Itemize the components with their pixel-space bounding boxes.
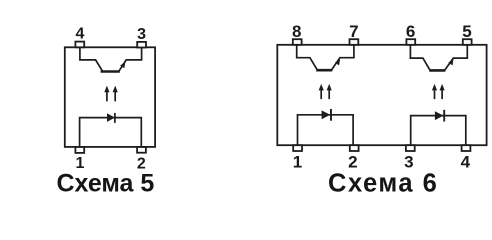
phototransistor VT2 base bar (U2a) <box>316 69 332 72</box>
light arrow 1 (U2a) <box>319 84 324 99</box>
svg-text:4: 4 <box>75 26 84 43</box>
svg-text:5: 5 <box>462 22 471 41</box>
wire: pin 6 to phototransistor collector (U2b) <box>410 45 430 70</box>
pin 6 stub (U2 top) <box>406 39 415 45</box>
wire: pin 8 to phototransistor collector (U2a) <box>297 45 318 70</box>
LED VD1 triangle anode (U1) <box>107 113 115 122</box>
svg-text:4: 4 <box>461 153 471 172</box>
pin 1 stub (U1 bottom-left) <box>75 147 84 153</box>
svg-text:7: 7 <box>349 22 358 41</box>
LED VD2 cathode bar (U2a) <box>330 109 332 121</box>
svg-text:3: 3 <box>137 26 146 43</box>
pin 4 stub (U2 bottom) <box>462 145 471 151</box>
pin 1 stub (U2 bottom) <box>293 145 302 151</box>
optocoupler U1 package body (Схема 5) <box>65 47 155 147</box>
wire: pin 7 to phototransistor emitter (U2a) <box>332 45 354 70</box>
LED VD2 triangle anode (U2a) <box>322 110 331 119</box>
pin 4 stub (U1 top-left) <box>75 42 84 48</box>
light arrow 2 (U2b) <box>440 84 445 99</box>
svg-text:6: 6 <box>406 22 415 41</box>
svg-text:Схема 5: Схема 5 <box>56 170 154 198</box>
phototransistor VT1 base bar (U1) <box>101 70 120 73</box>
svg-text:8: 8 <box>292 22 301 41</box>
svg-text:1: 1 <box>293 153 302 172</box>
wire: pin 5 to phototransistor emitter (U2b) <box>445 45 468 70</box>
pin 8 stub (U2 top) <box>293 39 302 45</box>
phototransistor VT1 emitter arrow (U1) <box>120 62 125 68</box>
wire: pin 3 to phototransistor emitter (U1) <box>119 47 142 71</box>
wire: LED loop pin1-anode-cathode-pin2 (U2a) <box>298 115 354 145</box>
pin 5 stub (U2 top) <box>463 39 472 45</box>
LED VD3 triangle anode (U2b) <box>435 111 444 120</box>
LED VD1 cathode bar (U1) <box>114 113 116 123</box>
wire: LED loop pin3-anode-cathode-pin4 (U2b) <box>411 116 466 146</box>
pin 3 stub (U2 bottom) <box>406 145 415 151</box>
optocoupler U2 package body (Схема 6) <box>277 45 486 145</box>
phototransistor VT2 emitter arrow (U2a) <box>335 59 340 65</box>
wire: LED loop pin1-anode-cathode-pin2 (U1) <box>80 118 142 147</box>
pin 2 stub (U1 bottom-right) <box>137 147 146 153</box>
pin 3 stub (U1 top-right) <box>137 42 146 48</box>
light arrow 1 (U2b) <box>432 84 437 99</box>
pin 7 stub (U2 top) <box>350 39 359 45</box>
pin 2 stub (U2 bottom) <box>350 145 359 151</box>
phototransistor VT3 emitter arrow (U2b) <box>448 59 453 65</box>
phototransistor VT3 base bar (U2b) <box>429 69 445 72</box>
light arrow 2 (U2a) <box>327 84 332 99</box>
light arrow 2 (U1) <box>113 86 118 102</box>
wire: pin 4 to phototransistor collector (U1) <box>80 47 103 71</box>
light arrow 1 (U1) <box>104 86 109 102</box>
svg-text:Схема 6: Схема 6 <box>328 169 438 197</box>
LED VD3 cathode bar (U2b) <box>443 110 445 122</box>
